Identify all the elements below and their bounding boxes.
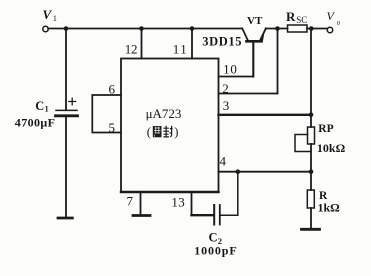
svg-text:4: 4 xyxy=(220,154,227,169)
label glyph feng (seal) xyxy=(163,126,172,137)
svg-text:1kΩ: 1kΩ xyxy=(318,200,341,214)
svg-text:1000pF: 1000pF xyxy=(194,243,237,257)
node junction C2 top xyxy=(236,169,241,174)
wire top rail from Vi terminal to transistor collector xyxy=(48,28,242,30)
resistor R body xyxy=(307,190,314,208)
wire pin 13 stub xyxy=(191,192,193,215)
node junction emitter / pin 2 xyxy=(275,26,280,31)
wire transistor emitter to Rsc xyxy=(266,28,288,30)
svg-text:7: 7 xyxy=(126,194,133,209)
svg-text:V: V xyxy=(327,9,336,23)
svg-text:0: 0 xyxy=(337,20,340,27)
svg-text:R: R xyxy=(286,9,296,24)
ground below R xyxy=(302,228,320,231)
wire C2 left to pin 13 xyxy=(192,214,214,216)
resistor Rsc body xyxy=(288,25,308,32)
svg-text:1: 1 xyxy=(53,13,57,23)
svg-text:VT: VT xyxy=(247,15,263,27)
svg-text:3: 3 xyxy=(223,98,230,113)
wire pin 12 stub xyxy=(141,29,143,59)
svg-text:(: ( xyxy=(147,125,151,139)
node junction pin 4 xyxy=(309,169,314,174)
wire left branch down to C1 xyxy=(65,29,67,110)
svg-text:V: V xyxy=(43,7,53,22)
node junction pin 3 xyxy=(309,113,314,118)
output terminal Vo xyxy=(327,27,332,32)
svg-text:RP: RP xyxy=(318,123,333,135)
svg-text:10: 10 xyxy=(223,62,238,77)
svg-text:13: 13 xyxy=(171,195,185,210)
svg-text:12: 12 xyxy=(125,42,137,57)
transistor Q1 VT 3DD15 xyxy=(242,29,265,77)
svg-text:6: 6 xyxy=(108,82,115,97)
input terminal Vi xyxy=(43,26,48,31)
ground below pin 7 xyxy=(133,214,150,217)
node junction pin 11 on top rail xyxy=(190,26,195,31)
svg-text:11: 11 xyxy=(173,42,189,57)
wire down from emitter junction to pin 2 xyxy=(277,29,279,94)
wire from C1 to ground xyxy=(65,117,67,217)
svg-text:2: 2 xyxy=(222,81,229,96)
wire RP wiper loop xyxy=(295,135,311,152)
wire pin 4 xyxy=(219,171,312,173)
svg-text:1: 1 xyxy=(45,105,49,114)
wire R to ground xyxy=(310,208,312,228)
wire pin 7 stub xyxy=(140,192,142,214)
wire IC bottom edge emphasis xyxy=(121,191,219,193)
capacitor C2 xyxy=(214,205,220,225)
wire pin 3 xyxy=(219,114,312,116)
svg-text:SC: SC xyxy=(296,15,307,25)
wire Rsc to Vo terminal xyxy=(307,28,327,30)
capacitor C1 xyxy=(56,98,78,116)
wire RP to pin4 node xyxy=(310,144,312,190)
svg-text:C: C xyxy=(35,99,44,113)
wire shorting pins 6 and 5 xyxy=(92,95,121,133)
node junction output rail xyxy=(309,26,314,31)
wire pin 10 to transistor base xyxy=(219,76,254,78)
svg-text:3DD15: 3DD15 xyxy=(202,34,242,48)
wire C2 right branch xyxy=(221,172,238,216)
svg-text:μA723: μA723 xyxy=(146,106,182,121)
op-amp U1 regulator IC uA723 body xyxy=(121,59,219,193)
node junction at Vi rail and left branch xyxy=(64,26,69,31)
wire pin 11 stub xyxy=(191,29,193,59)
node junction pin 12 on top rail xyxy=(139,26,144,31)
svg-text:5: 5 xyxy=(108,120,115,135)
ground below C1 xyxy=(58,217,72,220)
svg-text:): ) xyxy=(174,125,178,139)
svg-text:10kΩ: 10kΩ xyxy=(317,141,346,155)
potentiometer RP body xyxy=(308,127,315,144)
svg-text:4700μF: 4700μF xyxy=(15,115,56,129)
wire output vertical down to RP xyxy=(310,29,312,128)
wire pin 2 xyxy=(219,93,278,95)
label glyph su (plastic) xyxy=(153,126,162,137)
